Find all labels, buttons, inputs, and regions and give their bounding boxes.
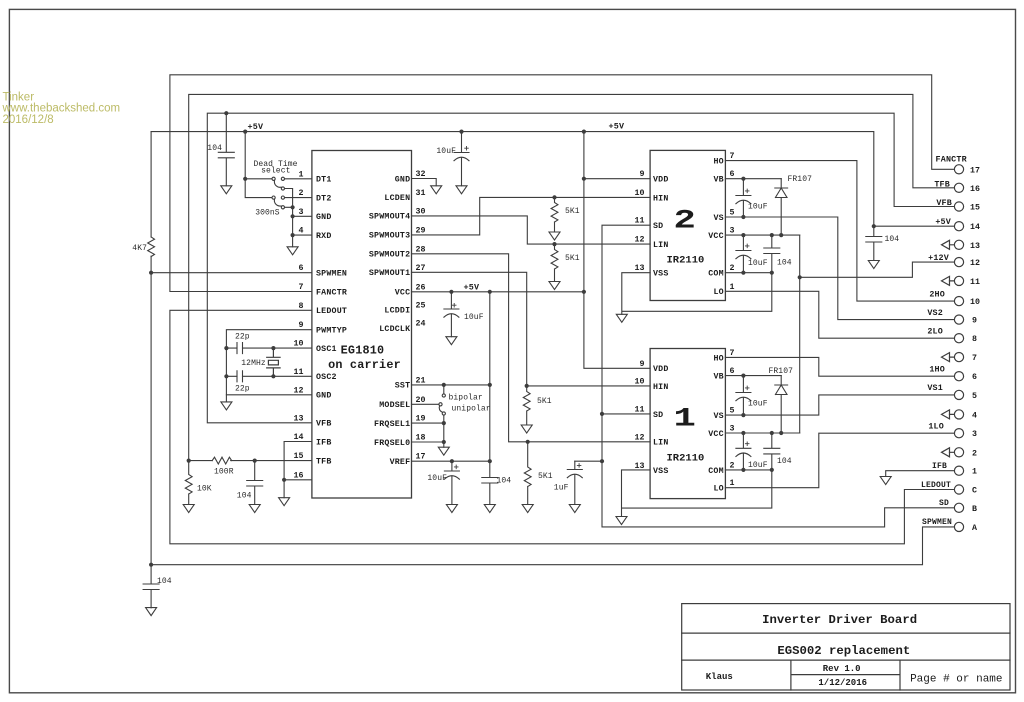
svg-text:VSS: VSS (653, 270, 669, 279)
svg-text:LEDOUT: LEDOUT (316, 307, 347, 316)
svg-text:4K7: 4K7 (132, 244, 147, 253)
svg-text:LO: LO (713, 485, 723, 494)
svg-text:7: 7 (972, 354, 977, 363)
svg-text:11: 11 (970, 278, 980, 287)
svg-text:EG1810: EG1810 (341, 344, 385, 358)
svg-text:7: 7 (299, 283, 304, 292)
ground below connector 104 (868, 261, 879, 269)
capacitor 10uF bootstrap ch1 (736, 376, 751, 416)
svg-text:SD: SD (653, 411, 663, 420)
ground arrow below HIN1 5K1 (521, 425, 532, 433)
wire SPWMOUT4 to LIN of IR2110 #2 (412, 216, 651, 244)
svg-text:MODSEL: MODSEL (379, 401, 410, 410)
svg-text:6: 6 (730, 170, 735, 179)
ground below TFB 104 (249, 505, 260, 513)
svg-text:11: 11 (635, 217, 645, 226)
svg-text:2: 2 (674, 205, 696, 236)
svg-text:104: 104 (237, 491, 252, 500)
capacitor 10uF at +5V rail top (454, 132, 469, 186)
svg-text:EGS002 replacement: EGS002 replacement (777, 644, 910, 658)
wire OSC2 row with 22p cap (226, 375, 312, 377)
capacitor 104 on VREF (482, 461, 498, 504)
svg-text:GND: GND (316, 213, 332, 222)
svg-text:9: 9 (640, 170, 645, 179)
svg-text:unipolar: unipolar (452, 404, 491, 413)
wire SST row (412, 384, 490, 386)
diode FR107 ch1 (775, 376, 788, 433)
svg-text:104: 104 (885, 235, 900, 244)
wire TFB net: EG1810 pin15 up over top to connector 16 (189, 94, 955, 460)
wire SST to bipolar circle (443, 385, 445, 394)
svg-text:+5V: +5V (248, 122, 264, 132)
wire FANCTR net: EG1810 pin7 up over top to connector 17 (170, 75, 955, 292)
capacitor 104 on VFB line top left (218, 113, 234, 186)
capacitor 22p lower plates (237, 371, 243, 382)
svg-text:8: 8 (299, 302, 304, 311)
svg-text:100R: 100R (214, 467, 234, 476)
ground below top 10uF (456, 186, 467, 194)
svg-text:+5V: +5V (935, 217, 951, 227)
capacitor 104 on VCC2 (764, 235, 780, 273)
svg-text:3: 3 (730, 425, 735, 434)
svg-text:Klaus: Klaus (706, 672, 733, 682)
svg-text:1: 1 (299, 170, 304, 179)
title block box (682, 604, 1010, 690)
svg-text:RXD: RXD (316, 232, 332, 241)
svg-text:www.thebackshed.com: www.thebackshed.com (2, 103, 121, 115)
ground below FRQSEL tie (438, 447, 449, 455)
svg-text:LCDDI: LCDDI (384, 307, 410, 316)
capacitor 10uF on VCC2 (736, 235, 751, 273)
svg-text:VDD: VDD (653, 176, 669, 185)
EG1810 chip body (312, 151, 412, 499)
svg-text:SPWMOUT1: SPWMOUT1 (369, 269, 410, 278)
ground at GND32 (431, 186, 442, 194)
svg-text:SPWMEN: SPWMEN (316, 270, 347, 279)
svg-text:12: 12 (635, 433, 645, 442)
svg-text:12MHz: 12MHz (241, 359, 266, 368)
wire 1uF link to SD vertical (575, 460, 602, 462)
svg-text:104: 104 (777, 457, 792, 466)
svg-text:1: 1 (730, 283, 735, 292)
wire SPWMEN bottom run to connector A (151, 527, 954, 565)
Dead Time select switch circles (272, 177, 285, 209)
ground arrow below LIN2 5K1 (549, 282, 560, 290)
svg-text:FRQSEL0: FRQSEL0 (374, 439, 410, 448)
capacitor 1uF on SD net (567, 461, 582, 504)
svg-text:bipolar: bipolar (449, 393, 483, 402)
wire GND pin32 to ground (412, 179, 437, 186)
ground below 1uF (569, 505, 580, 513)
svg-text:LIN: LIN (653, 439, 669, 448)
svg-text:10uF: 10uF (748, 399, 768, 408)
svg-text:HIN: HIN (653, 383, 669, 392)
svg-text:6: 6 (972, 373, 977, 382)
resistor 5K1 pulldown on LIN2 (551, 244, 558, 281)
capacitor 104 bottom left on SPWMEN net (143, 565, 159, 608)
svg-text:10: 10 (970, 298, 980, 307)
svg-text:7: 7 (730, 349, 735, 358)
svg-text:2HO: 2HO (929, 290, 945, 300)
svg-text:104: 104 (777, 259, 792, 268)
svg-text:LIN: LIN (653, 241, 669, 250)
svg-text:10K: 10K (197, 484, 212, 493)
svg-text:22p: 22p (235, 384, 250, 393)
svg-text:FRQSEL1: FRQSEL1 (374, 420, 410, 429)
wire VCC2 row (725, 234, 799, 236)
svg-text:24: 24 (416, 320, 426, 329)
capacitor 10uF on VCC1 (736, 433, 751, 470)
wire SPWMOUT2 to LIN of IR2110 #1 (412, 254, 651, 442)
wire COM1/VSS1 to ground (622, 470, 772, 517)
svg-text:VSS: VSS (653, 467, 669, 476)
wire EG VCC pin26 +5V branch (412, 291, 584, 293)
svg-text:1: 1 (674, 403, 696, 434)
svg-text:104: 104 (157, 577, 172, 586)
svg-text:10: 10 (635, 377, 645, 386)
svg-text:10uF: 10uF (748, 202, 768, 211)
svg-text:29: 29 (416, 226, 426, 235)
IR2110 #2 chip body (650, 150, 725, 300)
svg-text:VCC: VCC (708, 430, 724, 439)
svg-text:9: 9 (299, 321, 304, 330)
svg-text:5: 5 (730, 209, 735, 218)
wire VREF row (412, 460, 490, 462)
svg-text:21: 21 (416, 376, 426, 385)
svg-text:FR107: FR107 (769, 367, 794, 376)
svg-text:A: A (972, 524, 977, 533)
wire LO2 to connector 8 (2LO) (725, 291, 954, 338)
svg-text:4: 4 (299, 227, 304, 236)
svg-text:1: 1 (730, 479, 735, 488)
wire VCC1 row (725, 432, 799, 434)
svg-text:19: 19 (416, 415, 426, 424)
svg-text:16: 16 (970, 185, 980, 194)
svg-text:9: 9 (640, 360, 645, 369)
resistor 10K from TFB row to ground (185, 461, 192, 505)
svg-text:11: 11 (635, 405, 645, 414)
svg-text:VFB: VFB (936, 198, 952, 208)
svg-text:IFB: IFB (316, 438, 332, 447)
svg-text:7: 7 (730, 152, 735, 161)
svg-text:COM: COM (708, 270, 724, 279)
svg-text:FANCTR: FANCTR (316, 288, 347, 297)
capacitor 10uF bootstrap ch2 (736, 179, 751, 217)
capacitor 104 at connector +5V (866, 226, 882, 260)
svg-text:12: 12 (635, 236, 645, 245)
svg-text:2: 2 (730, 461, 735, 470)
svg-text:1: 1 (972, 468, 977, 477)
wire VS1 row to connector 5 (725, 395, 954, 415)
wire HO2 to connector 10 (2HO) (725, 161, 954, 302)
ground below VREF 10uF (446, 505, 457, 513)
svg-text:26: 26 (416, 283, 426, 292)
wire IFB pin14 tied to pin16 and ground (284, 442, 312, 498)
ground below oscillator rail (221, 395, 232, 410)
svg-text:Inverter Driver Board: Inverter Driver Board (762, 613, 917, 627)
svg-text:COM: COM (708, 467, 724, 476)
svg-text:4: 4 (972, 411, 977, 420)
Dead Time switch arcs (274, 181, 281, 206)
connector pin circles 17..A (954, 165, 963, 174)
svg-text:Tinker: Tinker (3, 91, 35, 103)
svg-text:1uF: 1uF (554, 483, 569, 492)
svg-text:VFB: VFB (316, 420, 332, 429)
svg-text:VB: VB (713, 373, 723, 382)
junction dots (224, 111, 228, 115)
svg-text:17: 17 (416, 453, 426, 462)
wire +5V drop to Dead Time switches (245, 132, 272, 198)
ground below VFB 104 (221, 186, 232, 194)
svg-text:SD: SD (939, 499, 949, 508)
svg-text:DT1: DT1 (316, 176, 332, 185)
svg-text:VDD: VDD (653, 365, 669, 374)
svg-text:25: 25 (416, 301, 426, 310)
svg-text:2: 2 (972, 449, 977, 458)
wire RXD pin4 stub (293, 234, 312, 236)
svg-text:SPWMOUT2: SPWMOUT2 (369, 251, 410, 260)
wire VB1 row (725, 375, 781, 377)
wire VB2 row to bootstrap cap and FR107 (725, 178, 781, 180)
svg-text:9: 9 (972, 317, 977, 326)
crystal 12MHz between OSC1/OSC2 (267, 348, 280, 376)
svg-text:SPWMOUT3: SPWMOUT3 (369, 232, 410, 241)
svg-text:VS1: VS1 (927, 383, 943, 393)
svg-text:VREF: VREF (390, 458, 411, 467)
svg-text:LCDEN: LCDEN (384, 194, 410, 203)
svg-text:VB: VB (713, 176, 723, 185)
svg-text:5K1: 5K1 (565, 207, 580, 216)
title block row lines (682, 633, 1010, 690)
svg-text:TFB: TFB (316, 457, 332, 466)
svg-text:12: 12 (970, 259, 980, 268)
svg-text:LO: LO (713, 288, 723, 297)
svg-text:Rev 1.0: Rev 1.0 (823, 664, 861, 674)
svg-text:27: 27 (416, 264, 426, 273)
svg-text:SPWMEN: SPWMEN (922, 518, 952, 527)
svg-text:15: 15 (294, 452, 304, 461)
wire SPWMOUT3 to HIN of IR2110 #2 (412, 197, 651, 235)
svg-text:VCC: VCC (708, 232, 724, 241)
svg-text:104: 104 (207, 144, 222, 153)
svg-text:1/12/2016: 1/12/2016 (818, 678, 867, 688)
ground arrow below LIN1 5K1 (522, 505, 533, 513)
svg-text:32: 32 (416, 170, 426, 179)
ground arrow below HIN2 5K1 (549, 232, 560, 240)
svg-text:14: 14 (294, 433, 304, 442)
svg-text:FANCTR: FANCTR (936, 155, 968, 165)
svg-text:Page # or name: Page # or name (910, 674, 1002, 686)
resistor 5K1 pulldown on HIN1 (523, 386, 530, 425)
svg-text:8: 8 (972, 335, 977, 344)
switch circles bipolar/unipolar select (439, 394, 446, 415)
watermark text Tinker / www.thebackshed.com / 2016/12/8 (2, 91, 121, 126)
svg-text:IR2110: IR2110 (666, 453, 704, 465)
svg-text:on carrier: on carrier (328, 358, 401, 372)
wire SD net: SD2, SD1, bottom run to connector B (602, 225, 954, 527)
wire DT1 / DT2 pin stubs (285, 179, 312, 198)
svg-text:10: 10 (294, 340, 304, 349)
svg-text:FR107: FR107 (788, 175, 813, 184)
wire OSC1 row with 22p cap (226, 347, 312, 349)
ground below VREF 104 (484, 505, 495, 513)
svg-text:10uF: 10uF (464, 313, 484, 322)
svg-text:VCC: VCC (395, 289, 411, 298)
svg-text:10uF: 10uF (436, 147, 456, 156)
resistor 100R in TFB row (212, 457, 232, 464)
svg-text:2LO: 2LO (927, 327, 943, 337)
svg-text:1LO: 1LO (928, 421, 944, 431)
svg-text:30: 30 (416, 207, 426, 216)
resistor 5K1 pulldown on HIN2 (551, 197, 558, 232)
ground below 10K (183, 505, 194, 513)
svg-text:GND: GND (316, 392, 332, 401)
svg-text:TFB: TFB (934, 179, 950, 189)
svg-text:17: 17 (970, 166, 980, 175)
wire GND pin3 stub (293, 215, 312, 217)
capacitor 10uF on VCC26 (444, 292, 459, 337)
svg-text:13: 13 (970, 242, 980, 251)
wire +12V vertical joining VCC2 and VCC1 (799, 235, 801, 433)
resistor 5K1 pulldown on LIN1 (524, 442, 531, 505)
svg-text:IFB: IFB (932, 462, 947, 471)
svg-text:28: 28 (416, 245, 426, 254)
wire +12V run to connector 12 (800, 262, 955, 277)
svg-text:SST: SST (395, 382, 411, 391)
svg-text:13: 13 (294, 414, 304, 423)
svg-text:12: 12 (294, 386, 304, 395)
svg-text:6: 6 (730, 367, 735, 376)
svg-text:300nS: 300nS (255, 208, 280, 217)
arc MODSEL switch (439, 406, 442, 412)
svg-text:31: 31 (416, 189, 426, 198)
svg-text:5K1: 5K1 (538, 472, 553, 481)
capacitor 104 on VCC1 (764, 433, 780, 470)
svg-text:GND: GND (395, 175, 411, 184)
svg-text:2016/12/8: 2016/12/8 (3, 114, 54, 126)
svg-text:10uF: 10uF (748, 461, 768, 470)
wire LO1 to connector 3 (1LO) (725, 433, 954, 488)
svg-text:HO: HO (713, 158, 723, 167)
svg-text:2: 2 (730, 264, 735, 273)
svg-text:PWMTYP: PWMTYP (316, 327, 347, 336)
svg-text:20: 20 (416, 396, 426, 405)
svg-text:3: 3 (972, 430, 977, 439)
capacitor 104 on TFB row (247, 461, 263, 505)
wire unipolar circle down to FRQSEL1/FRQSEL0 and ground (412, 415, 444, 447)
svg-text:10uF: 10uF (748, 259, 768, 268)
svg-text:B: B (972, 505, 977, 514)
ground below DT rail (287, 247, 298, 255)
svg-text:1HO: 1HO (929, 365, 945, 375)
svg-text:6: 6 (299, 264, 304, 273)
svg-text:22p: 22p (235, 333, 250, 342)
wire +5V vertical feed to VDD2 and VDD1 (584, 132, 650, 369)
svg-text:OSC1: OSC1 (316, 345, 337, 354)
svg-text:HIN: HIN (653, 194, 669, 203)
svg-text:16: 16 (294, 471, 304, 480)
wire +5V vertical from VCC26 down to SST/VREF (489, 292, 491, 461)
ground below IFB tie (279, 498, 290, 506)
capacitor 10uF on VREF (444, 461, 459, 504)
svg-text:C: C (972, 487, 977, 496)
ground below VSS2 (616, 314, 627, 322)
wire VS2 row to connector 9 (725, 217, 954, 320)
svg-text:+12V: +12V (928, 253, 950, 263)
svg-text:IR2110: IR2110 (666, 255, 704, 267)
svg-text:13: 13 (635, 264, 645, 273)
svg-text:10: 10 (635, 189, 645, 198)
wire DT wiper rail to GND3/RXD4 and ground (285, 189, 293, 247)
svg-text:5K1: 5K1 (537, 397, 552, 406)
svg-text:select: select (261, 167, 290, 176)
diode FR107 ch2 (775, 179, 788, 235)
svg-text:5: 5 (730, 407, 735, 416)
resistor 4K7 pull-up on SPWMEN (148, 237, 155, 257)
svg-text:11: 11 (294, 368, 304, 377)
svg-text:+5V: +5V (464, 282, 480, 292)
svg-text:LCDCLK: LCDCLK (379, 325, 410, 334)
ground below bottom 104 (146, 608, 157, 616)
svg-text:+5V: +5V (609, 122, 625, 132)
svg-text:VS2: VS2 (927, 308, 943, 318)
IR2110 #1 chip body (650, 349, 725, 499)
wire HO1 to connector 6 (1HO) (725, 357, 954, 376)
svg-text:DT2: DT2 (316, 194, 332, 203)
svg-text:104: 104 (497, 476, 512, 485)
ground at IFB pin 1 (880, 477, 891, 485)
wire TFB row segments with 100R in series (189, 460, 312, 462)
svg-text:15: 15 (970, 204, 980, 213)
svg-text:10uF: 10uF (427, 474, 447, 483)
no-connect arrows at pins 13,11,7,4,2 (942, 240, 955, 249)
svg-text:14: 14 (970, 223, 980, 232)
wire PWMTYP pin9 to oscillator ground rail (226, 330, 312, 395)
ground below VCC26 10uF (446, 337, 457, 345)
wire COM2/VSS2 to ground (622, 273, 772, 315)
wire MODSEL stub (412, 403, 439, 405)
svg-text:18: 18 (416, 434, 426, 443)
svg-text:VS: VS (713, 412, 723, 421)
ground below VSS1 (616, 517, 627, 525)
svg-text:LEDOUT: LEDOUT (921, 481, 951, 490)
svg-text:VS: VS (713, 214, 723, 223)
wire LEDOUT: EG1810 pin8 down and bottom run to connector C (170, 310, 955, 544)
svg-text:13: 13 (635, 462, 645, 471)
svg-text:2: 2 (299, 189, 304, 198)
svg-text:3: 3 (299, 208, 304, 217)
svg-text:HO: HO (713, 354, 723, 363)
wire +5V left leg down through 4K7 to SPWMEN net and bottom 104 (150, 132, 152, 565)
wire IFB connector 1 to ground (886, 471, 955, 477)
wire +5V rail across top to connector 14 (151, 132, 954, 227)
wire SPWMEN: EG1810 pin6 to left rail (151, 272, 312, 274)
svg-text:5K1: 5K1 (565, 254, 580, 263)
svg-text:5: 5 (972, 392, 977, 401)
capacitor 22p upper plates (237, 343, 243, 354)
svg-text:SPWMOUT4: SPWMOUT4 (369, 213, 410, 222)
wire VFB net: EG1810 pin13 up over top to connector 15 (207, 113, 954, 423)
svg-text:OSC2: OSC2 (316, 373, 337, 382)
svg-text:3: 3 (730, 227, 735, 236)
wire SPWMOUT1 to HIN of IR2110 #1 (412, 272, 651, 386)
svg-text:SD: SD (653, 222, 663, 231)
